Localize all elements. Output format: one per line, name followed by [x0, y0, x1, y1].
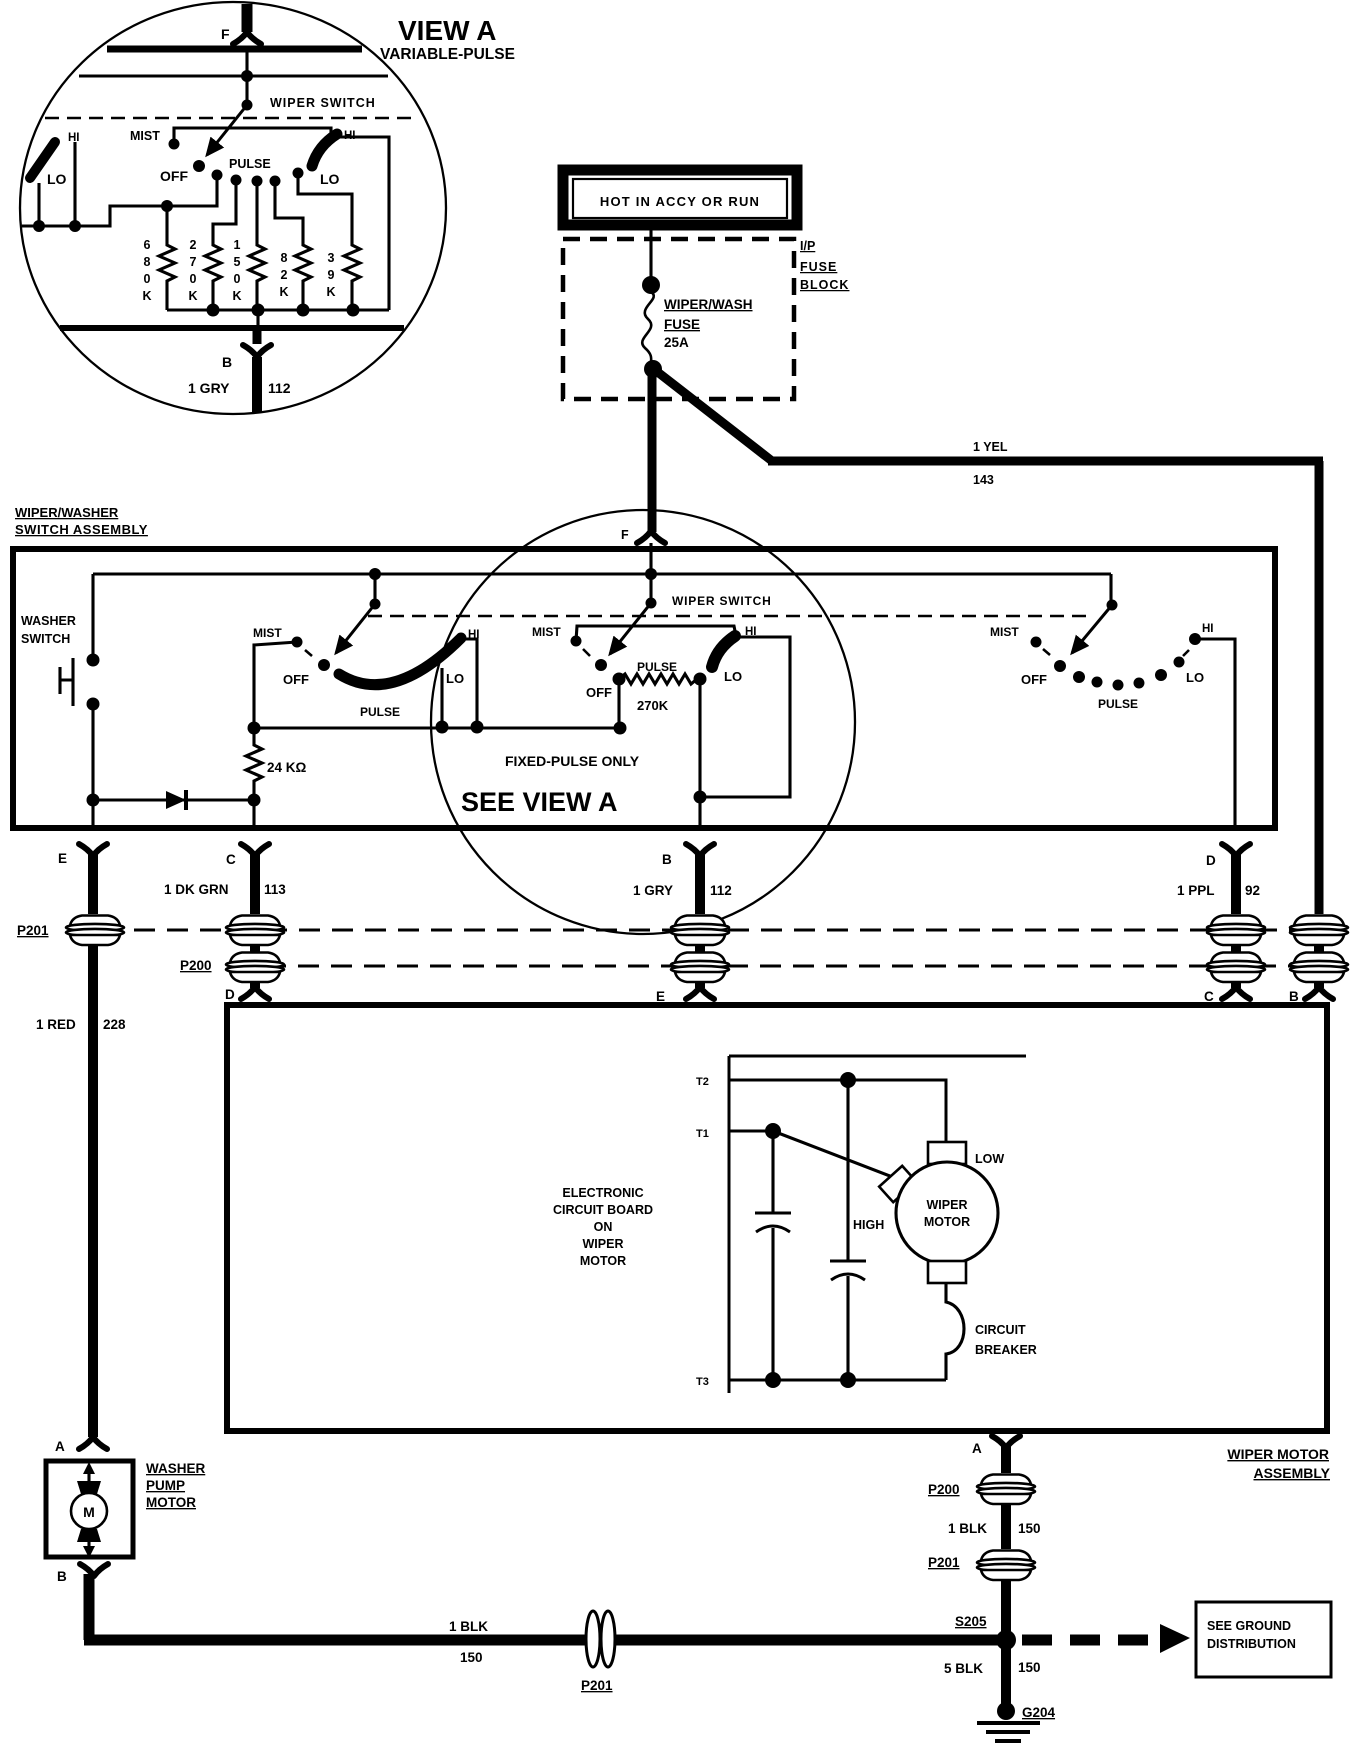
svg-text:T1: T1 — [696, 1128, 709, 1140]
dashed wire to ground distribution — [1022, 1635, 1158, 1646]
capacitor C1 plates — [755, 1212, 791, 1215]
wire 1 GRY 112 (view A) — [252, 357, 262, 413]
svg-text:F: F — [221, 26, 230, 42]
HI contact stroke right (view A) — [312, 134, 337, 166]
MIST contact dot (view A) — [169, 139, 180, 150]
svg-text:WIPER/WASHER: WIPER/WASHER — [15, 505, 119, 520]
dashed separator in box — [368, 615, 1092, 618]
ground symbol G204 — [977, 1721, 1040, 1725]
svg-text:MOTOR: MOTOR — [146, 1495, 196, 1510]
resistor 24K — [246, 729, 262, 800]
svg-text:OFF: OFF — [283, 672, 309, 687]
svg-text:6: 6 — [144, 238, 151, 252]
connector P201 pair C — [226, 916, 284, 946]
svg-text:MIST: MIST — [532, 625, 561, 639]
thick wire fuse to F connector — [648, 373, 657, 532]
svg-text:FUSE: FUSE — [664, 317, 700, 332]
svg-text:B: B — [57, 1569, 67, 1584]
wire B output — [698, 797, 701, 826]
svg-text:MIST: MIST — [130, 129, 160, 143]
resistor 150K (view A) — [249, 181, 265, 310]
svg-text:1 YEL: 1 YEL — [973, 440, 1008, 454]
wiper motor assembly box — [227, 1005, 1327, 1431]
sw3 pivot dot — [1107, 600, 1118, 611]
connector B fork (view A) — [243, 345, 271, 357]
wire to pivot (view A) — [245, 76, 248, 105]
see ground distribution box — [1196, 1602, 1331, 1677]
connector P200 pair yel — [1290, 953, 1348, 983]
T2 wire — [729, 1080, 946, 1142]
pump M circle — [71, 1493, 107, 1529]
connector P201 pair B — [671, 916, 729, 946]
svg-text:A: A — [972, 1441, 982, 1456]
sw3 pivot wire — [1109, 574, 1112, 605]
connector P201 pair motor — [977, 1551, 1035, 1581]
power box HOT IN ACCY OR RUN outer — [563, 170, 797, 225]
svg-text:E: E — [58, 851, 67, 866]
connector A fork (motor bottom) — [992, 1436, 1020, 1448]
svg-text:7: 7 — [190, 255, 197, 269]
T3 wire — [729, 1379, 946, 1382]
sw2 wire resistor to bus — [617, 679, 620, 728]
svg-text:PULSE: PULSE — [637, 660, 677, 674]
T1 diagonal to high brush — [773, 1131, 890, 1176]
sw3 HI dot — [1189, 633, 1201, 645]
svg-text:1 GRY: 1 GRY — [188, 380, 230, 396]
sw1 arm arrow — [336, 604, 375, 653]
sw1 mist-off dash — [305, 650, 312, 656]
svg-text:OFF: OFF — [586, 685, 612, 700]
connector P200 pair B — [671, 953, 729, 983]
junction dot feed sw2 — [645, 568, 657, 580]
washer switch actuator symbol — [60, 658, 73, 706]
svg-text:G204: G204 — [1022, 1705, 1056, 1720]
svg-text:B: B — [222, 354, 232, 370]
svg-text:2: 2 — [190, 238, 197, 252]
wire D to motor box — [1231, 981, 1241, 988]
sw2 HI-LO contact stroke — [712, 636, 735, 667]
svg-text:1 DK GRN: 1 DK GRN — [164, 882, 229, 897]
svg-text:LO: LO — [1186, 670, 1204, 685]
washer switch top contact dot — [87, 654, 100, 667]
splice S205 dot — [996, 1630, 1016, 1650]
wire C between connectors — [250, 944, 260, 952]
connector P200 pair motor — [977, 1475, 1035, 1505]
OFF contact dot (view A) — [193, 160, 205, 172]
wire E stem — [88, 854, 98, 914]
capacitor C2 top lead — [846, 1080, 849, 1261]
wire rail to output bus (view A) — [256, 310, 259, 327]
sw3 MIST dot — [1031, 637, 1042, 648]
svg-text:K: K — [232, 289, 241, 303]
svg-text:WIPER: WIPER — [927, 1198, 968, 1212]
circuit board left rail — [728, 1056, 731, 1393]
svg-text:WIPER/WASH: WIPER/WASH — [664, 297, 753, 312]
connector P200 pair D — [1207, 953, 1265, 983]
wire pump B down — [84, 1574, 95, 1640]
svg-text:BLOCK: BLOCK — [800, 278, 849, 292]
capacitor C2 plates — [830, 1260, 866, 1263]
svg-text:P201: P201 — [17, 923, 49, 938]
svg-text:FUSE: FUSE — [800, 260, 837, 274]
second bus line (view A) — [79, 75, 388, 78]
wire HI right to right rail (view A) — [340, 137, 389, 310]
svg-text:0: 0 — [144, 272, 151, 286]
wire E output — [91, 800, 94, 826]
diode CR1 — [166, 791, 186, 809]
svg-text:LO: LO — [320, 171, 340, 187]
wire LO left down (view A) — [37, 183, 40, 226]
svg-text:150: 150 — [460, 1650, 483, 1665]
connector F fork at box — [637, 531, 665, 543]
svg-text:ASSEMBLY: ASSEMBLY — [1253, 1465, 1330, 1481]
washer switch wire bottom — [91, 704, 94, 800]
wire D stem — [1231, 854, 1241, 914]
resistor common rail (view A) — [167, 308, 389, 311]
svg-text:C: C — [1204, 989, 1214, 1004]
svg-text:HIGH: HIGH — [853, 1218, 884, 1232]
svg-text:E: E — [656, 989, 665, 1004]
wire yel between connectors — [1314, 944, 1324, 952]
connector C fork — [241, 844, 269, 856]
svg-text:A: A — [55, 1439, 65, 1454]
arrowhead to ground distribution — [1160, 1624, 1190, 1653]
svg-text:DISTRIBUTION: DISTRIBUTION — [1207, 1637, 1296, 1651]
svg-text:OFF: OFF — [160, 168, 188, 184]
connector B fork (pump) — [80, 1564, 108, 1576]
svg-text:T3: T3 — [696, 1376, 709, 1388]
sw1 OFF dot — [318, 659, 330, 671]
capacitor C1 top lead — [771, 1131, 774, 1213]
svg-text:K: K — [279, 285, 288, 299]
svg-text:112: 112 — [268, 380, 291, 396]
svg-text:WIPER: WIPER — [583, 1237, 624, 1251]
connector A fork (pump) — [79, 1437, 107, 1449]
svg-text:SEE GROUND: SEE GROUND — [1207, 1619, 1291, 1633]
connector E fork (motor side) — [686, 987, 714, 999]
sw3 lo-hi dash — [1183, 650, 1189, 656]
sw2 HI right loop — [700, 637, 790, 797]
connector D fork (motor side) — [241, 987, 269, 999]
wire 1 YEL vertical right — [1315, 461, 1324, 914]
wire F stub to bus (view A) — [245, 49, 248, 76]
resistor 82K (view A) — [275, 181, 311, 310]
connector B stub (view A) — [253, 328, 262, 344]
svg-text:8: 8 — [144, 255, 151, 269]
inline connector P201 — [586, 1611, 615, 1667]
svg-text:S205: S205 — [955, 1614, 987, 1629]
capacitor C1 bottom lead — [771, 1228, 774, 1380]
wire 5 BLK 150 — [1001, 1640, 1011, 1712]
output bus thick (view A) — [60, 325, 404, 331]
svg-text:CIRCUIT: CIRCUIT — [975, 1323, 1026, 1337]
svg-text:25A: 25A — [664, 335, 689, 350]
svg-text:OFF: OFF — [1021, 672, 1047, 687]
resistor 270K (view A) — [205, 180, 236, 310]
svg-text:LOW: LOW — [975, 1152, 1004, 1166]
see view A circle (large thin) — [431, 510, 855, 934]
wire HI left down (view A) — [73, 142, 76, 226]
sw1 pivot dot — [370, 599, 381, 610]
bottom-left wire (view A) — [22, 175, 217, 226]
wiper motor circle — [896, 1162, 998, 1264]
wire P201 to S205 — [1001, 1579, 1011, 1640]
resistor 39K (view A) — [298, 173, 360, 310]
dashed separator (view A) — [45, 117, 417, 120]
bottom brush — [928, 1261, 966, 1283]
svg-text:8: 8 — [281, 251, 288, 265]
junction dots left bus (view A) — [33, 220, 45, 232]
wire 1 YEL horizontal — [768, 457, 1323, 466]
sw2 OFF dot — [595, 659, 607, 671]
wire C stem — [250, 854, 260, 914]
wire C to motor box — [250, 981, 260, 988]
svg-text:ON: ON — [594, 1220, 613, 1234]
svg-text:VIEW A: VIEW A — [398, 15, 497, 46]
svg-text:112: 112 — [710, 883, 732, 898]
sw1 LO wire — [440, 668, 443, 727]
wiper arm arrow (view A) — [207, 105, 247, 155]
HI contact stroke left (view A) — [30, 142, 55, 178]
sw2 mist-off dash — [583, 649, 590, 656]
svg-text:HOT IN ACCY OR RUN: HOT IN ACCY OR RUN — [600, 194, 760, 209]
P200 dashed plane — [232, 965, 1296, 968]
circuit breaker wire and bump — [946, 1283, 964, 1380]
wiper/wash fuse element — [642, 292, 654, 365]
svg-text:1: 1 — [234, 238, 241, 252]
pivot dot (view A) — [242, 100, 253, 111]
wire B to motor box — [695, 981, 705, 988]
sw1 MIST dot — [292, 637, 303, 648]
ground G204 dot — [997, 1702, 1015, 1720]
svg-text:D: D — [225, 987, 235, 1002]
MIST to HI top strap (view A) — [174, 128, 331, 144]
svg-text:WIPER SWITCH: WIPER SWITCH — [270, 96, 376, 110]
svg-text:MIST: MIST — [990, 625, 1019, 639]
svg-text:3: 3 — [328, 251, 335, 265]
washer switch bottom contact dot — [87, 698, 100, 711]
capacitor C2 bottom lead — [846, 1276, 849, 1380]
sw1 output bus — [254, 726, 620, 729]
sw3 arm arrow — [1072, 605, 1112, 653]
svg-text:9: 9 — [328, 268, 335, 282]
svg-text:SWITCH: SWITCH — [21, 632, 70, 646]
view A inset circle — [20, 2, 446, 414]
sw2 pivot dot — [646, 598, 657, 609]
svg-text:270K: 270K — [637, 698, 669, 713]
svg-text:WASHER: WASHER — [146, 1461, 206, 1476]
svg-text:P200: P200 — [180, 958, 212, 973]
circuit board top wire — [729, 1055, 1026, 1058]
sw1 pulse contact arc — [339, 638, 461, 685]
svg-text:228: 228 — [103, 1017, 126, 1032]
connector P200 pair C — [226, 953, 284, 983]
low brush — [928, 1142, 966, 1164]
svg-text:113: 113 — [264, 882, 286, 897]
svg-text:CIRCUIT BOARD: CIRCUIT BOARD — [553, 1203, 653, 1217]
wire diode row — [93, 798, 254, 801]
svg-text:M: M — [83, 1504, 95, 1520]
switch assembly box — [13, 549, 1275, 828]
wire D between connectors — [1231, 944, 1241, 952]
svg-text:K: K — [188, 289, 197, 303]
svg-text:B: B — [1289, 989, 1299, 1004]
sw2 wire resistor right down — [698, 679, 701, 797]
connector C fork (motor side) — [1222, 987, 1250, 999]
svg-text:P201: P201 — [581, 1678, 613, 1693]
connector P201 pair yel — [1290, 916, 1348, 946]
sw2 MIST-HI strap — [576, 626, 736, 641]
pump bottom brush — [77, 1529, 101, 1542]
internal feed line — [93, 572, 1111, 575]
svg-text:BREAKER: BREAKER — [975, 1343, 1037, 1357]
wire 1 RED 228 — [88, 945, 98, 1437]
junction dot B output — [694, 791, 707, 804]
wire F into box — [649, 543, 652, 574]
svg-text:F: F — [621, 528, 629, 542]
connector F (view A) stem — [242, 4, 253, 32]
pump down arrow — [87, 1542, 90, 1551]
svg-text:C: C — [226, 852, 236, 867]
connector B fork — [686, 844, 714, 856]
svg-text:WASHER: WASHER — [21, 614, 76, 628]
sw2 arm arrow — [610, 603, 651, 654]
svg-text:I/P: I/P — [800, 239, 815, 253]
washer switch wire top — [91, 574, 94, 660]
svg-text:24 KΩ: 24 KΩ — [267, 760, 307, 775]
svg-text:K: K — [326, 285, 335, 299]
svg-text:B: B — [662, 852, 672, 867]
svg-text:K: K — [142, 289, 151, 303]
connector B fork (motor side) — [1305, 987, 1333, 999]
fuse top dot — [642, 276, 660, 294]
pump top brush — [77, 1481, 101, 1494]
washer pump box — [46, 1461, 133, 1557]
wire 1 YEL diagonal — [655, 370, 772, 461]
svg-text:PULSE: PULSE — [229, 157, 271, 171]
resistor 680K (view A) — [159, 206, 175, 310]
high brush (tilted) — [879, 1166, 916, 1202]
T1 wire — [729, 1130, 773, 1133]
svg-text:HI: HI — [1202, 623, 1214, 635]
svg-text:P200: P200 — [928, 1482, 960, 1497]
bus dots — [248, 722, 261, 735]
svg-text:150: 150 — [1018, 1521, 1041, 1536]
sw2 MIST dot — [571, 636, 582, 647]
connector D fork — [1222, 844, 1250, 856]
wire hot box to fuse — [649, 230, 652, 285]
svg-text:FIXED-PULSE ONLY: FIXED-PULSE ONLY — [505, 753, 640, 769]
svg-text:MOTOR: MOTOR — [924, 1215, 970, 1229]
svg-text:WIPER SWITCH: WIPER SWITCH — [672, 594, 772, 608]
svg-text:1 BLK: 1 BLK — [449, 1619, 488, 1634]
svg-text:5: 5 — [234, 255, 241, 269]
svg-text:D: D — [1206, 853, 1216, 868]
connector P201 pair E — [66, 916, 124, 946]
svg-text:T2: T2 — [696, 1076, 709, 1088]
P201 dashed plane — [68, 929, 1296, 932]
junction dot feed sw1 — [369, 568, 381, 580]
svg-text:1 GRY: 1 GRY — [633, 883, 673, 898]
svg-text:143: 143 — [973, 473, 994, 487]
sw1 MIST wire — [254, 642, 297, 728]
svg-text:MIST: MIST — [253, 626, 282, 640]
svg-text:LO: LO — [724, 669, 742, 684]
sw2 pivot wire — [649, 574, 652, 603]
svg-text:1 PPL: 1 PPL — [1177, 883, 1215, 898]
svg-text:VARIABLE-PULSE: VARIABLE-PULSE — [380, 46, 515, 63]
fuse bottom dot — [644, 360, 662, 378]
wire 1 BLK 150 horizontal — [84, 1635, 1006, 1646]
junction dot washer/diode — [87, 794, 100, 807]
pump up arrow — [87, 1468, 90, 1494]
fuse block dashed box — [563, 239, 794, 399]
sw3 OFF dot — [1054, 660, 1066, 672]
svg-text:ELECTRONIC: ELECTRONIC — [562, 1186, 643, 1200]
svg-text:MOTOR: MOTOR — [580, 1254, 626, 1268]
svg-text:5 BLK: 5 BLK — [944, 1661, 983, 1676]
junction dot on second bus (view A) — [241, 70, 253, 82]
resistor end dots — [613, 673, 626, 686]
svg-text:P201: P201 — [928, 1555, 960, 1570]
svg-text:1 RED: 1 RED — [36, 1017, 76, 1032]
svg-text:LO: LO — [47, 171, 67, 187]
svg-text:WIPER MOTOR: WIPER MOTOR — [1227, 1446, 1329, 1462]
rail junction dots (view A) — [207, 304, 220, 317]
T1 junction dot — [765, 1123, 781, 1139]
svg-text:0: 0 — [234, 272, 241, 286]
svg-text:SWITCH ASSEMBLY: SWITCH ASSEMBLY — [15, 522, 148, 537]
power box inner border — [573, 179, 787, 218]
connector P201 pair D — [1207, 916, 1265, 946]
wire motor A stem — [1001, 1446, 1011, 1473]
wire C output — [252, 800, 255, 826]
wire yel to motor box — [1314, 981, 1324, 988]
svg-text:2: 2 — [281, 268, 288, 282]
svg-text:PULSE: PULSE — [1098, 697, 1138, 711]
svg-text:SEE VIEW A: SEE VIEW A — [461, 787, 618, 817]
connector F (view A) fork — [233, 32, 261, 44]
wire B between connectors — [695, 944, 705, 952]
T3 junction dots — [765, 1372, 781, 1388]
sw1 pivot wire — [373, 574, 376, 604]
svg-text:LO: LO — [446, 671, 464, 686]
connector E fork — [79, 844, 107, 856]
junction dot diode/24K — [248, 794, 261, 807]
pulse contact dots (view A) — [212, 170, 223, 181]
svg-text:92: 92 — [1245, 883, 1260, 898]
wire B stem — [695, 854, 705, 914]
sw3 HI wire to D — [1195, 639, 1235, 826]
resistor 270K fixed — [619, 674, 700, 684]
thick feed bus (view A) — [107, 46, 362, 53]
sw1 HI wire — [466, 639, 477, 727]
wire between P200 P201 — [1001, 1503, 1011, 1549]
svg-text:PULSE: PULSE — [360, 705, 400, 719]
sw3 pulse dotted arc — [1073, 671, 1085, 683]
svg-text:PUMP: PUMP — [146, 1478, 185, 1493]
svg-text:150: 150 — [1018, 1660, 1041, 1675]
sw3 mist-off dash — [1043, 649, 1050, 655]
T2 junction dot — [840, 1072, 856, 1088]
svg-text:0: 0 — [190, 272, 197, 286]
svg-text:1 BLK: 1 BLK — [948, 1521, 987, 1536]
